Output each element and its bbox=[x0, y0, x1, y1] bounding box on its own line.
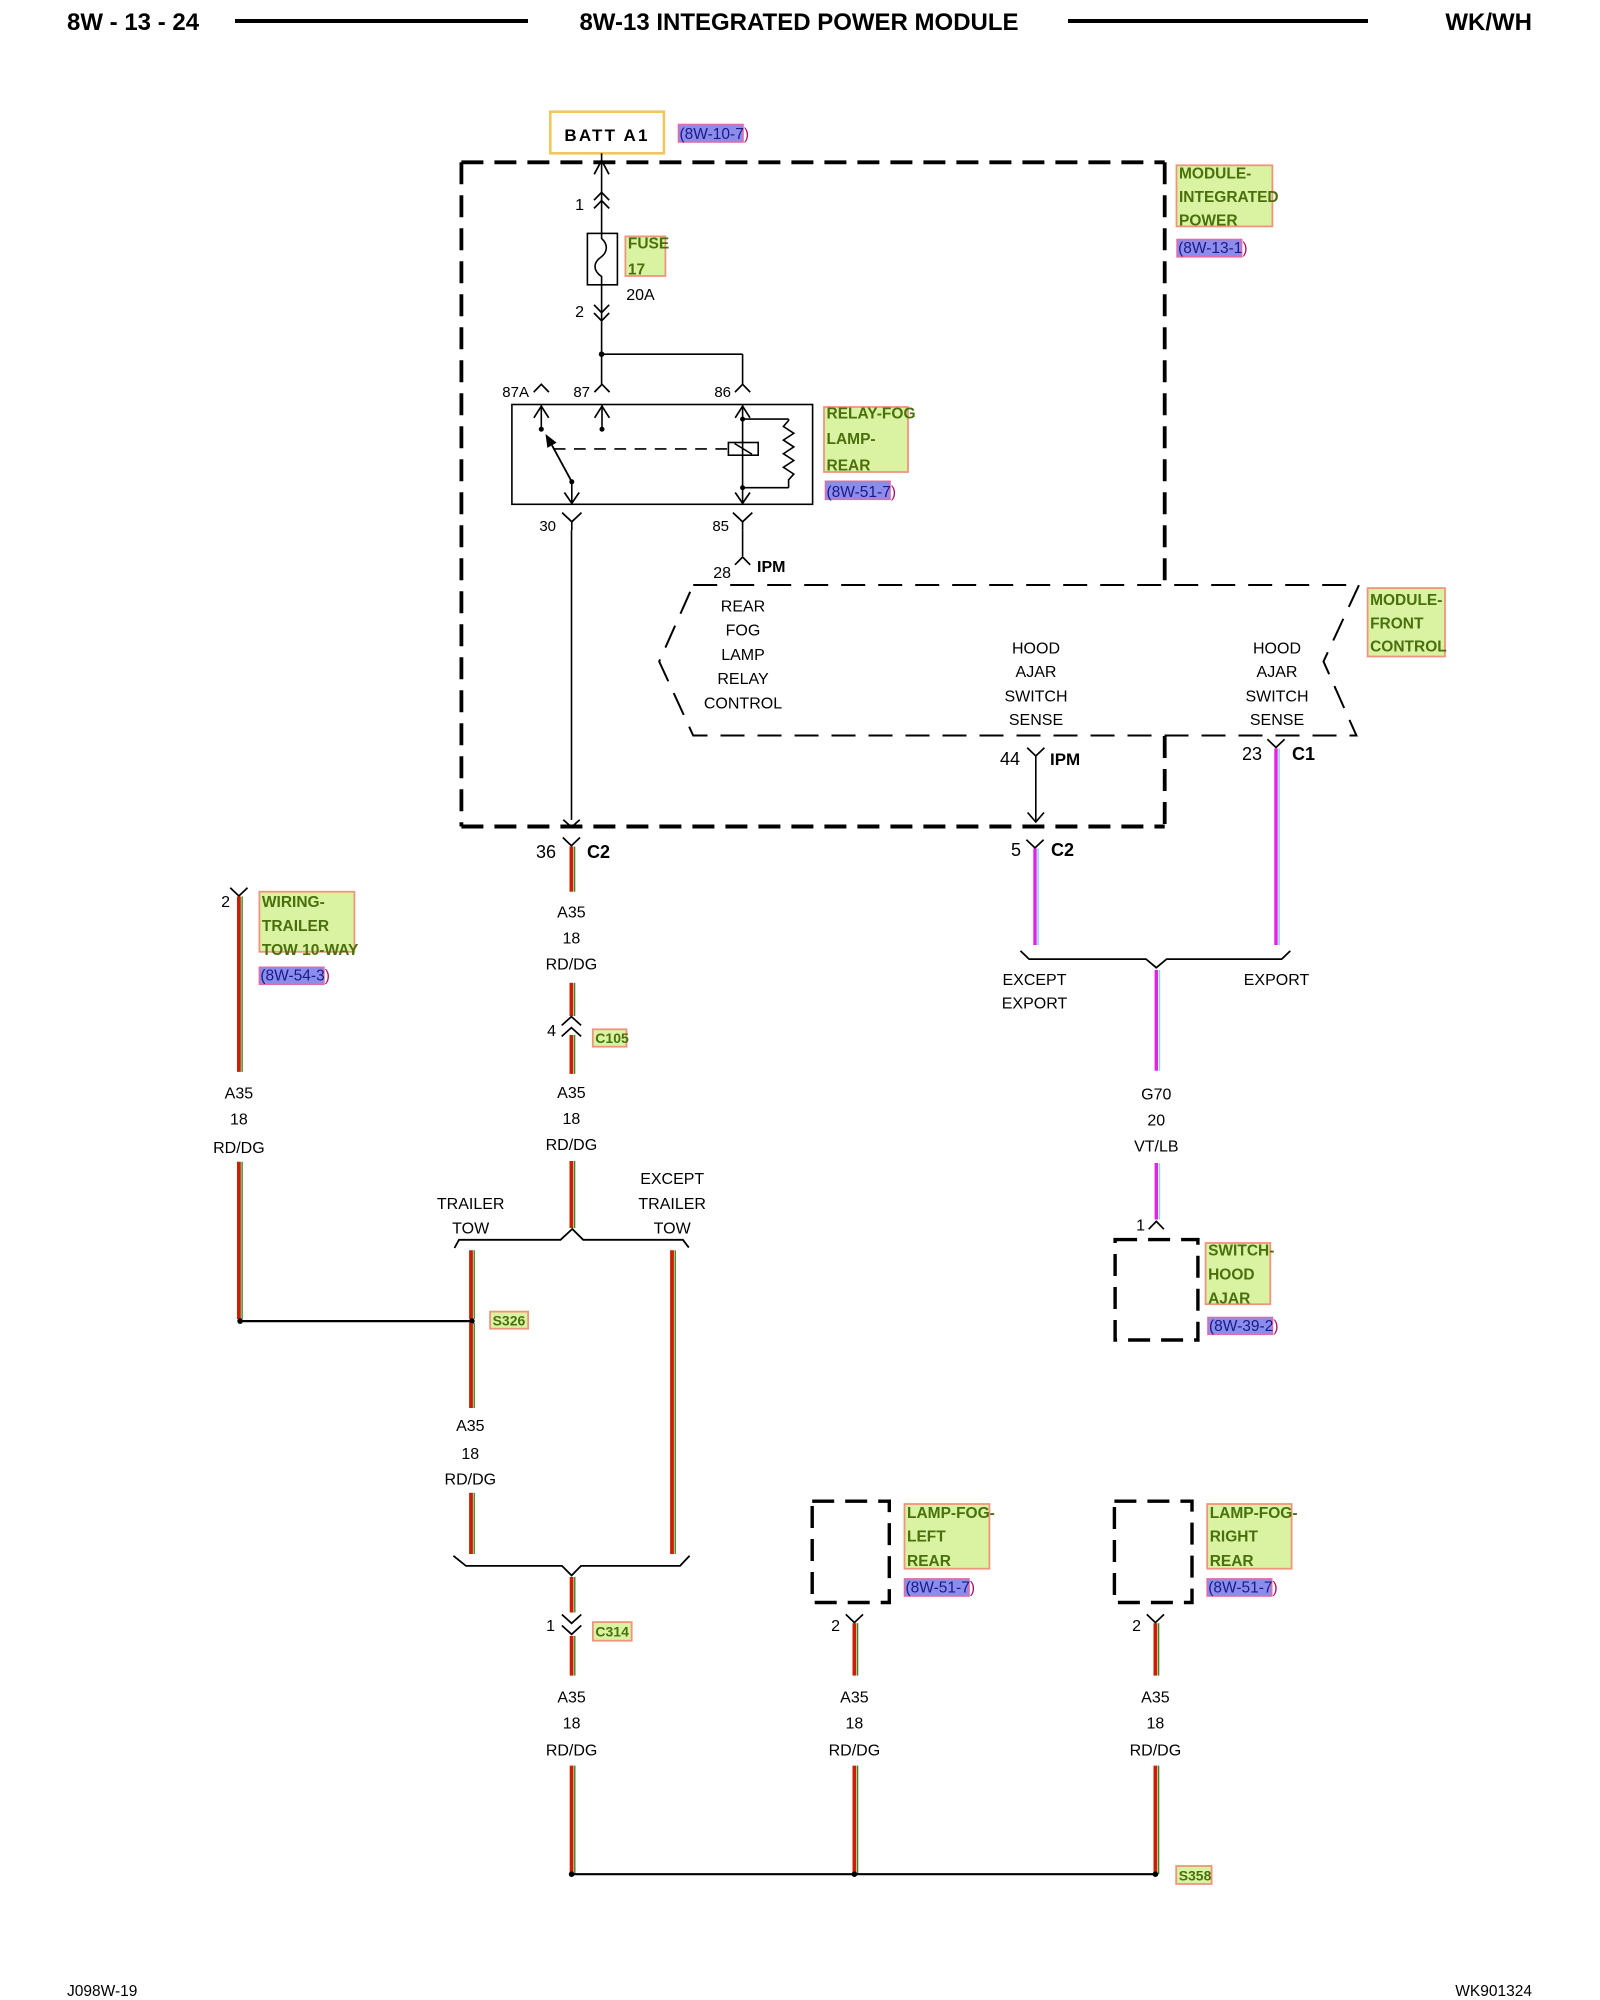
junction node bbox=[599, 351, 605, 357]
splice S358 bbox=[572, 1873, 1156, 1875]
relay pin 87A internal bbox=[540, 405, 542, 430]
svg-text:EXPORT: EXPORT bbox=[1244, 972, 1310, 989]
svg-text:18: 18 bbox=[1147, 1716, 1165, 1733]
svg-text:C2: C2 bbox=[1051, 840, 1074, 860]
svg-text:CONTROL: CONTROL bbox=[704, 696, 782, 713]
svg-text:SWITCH: SWITCH bbox=[1245, 688, 1308, 705]
label (8W-51-7) relay bbox=[826, 481, 891, 499]
svg-text:2: 2 bbox=[575, 304, 584, 321]
svg-text:LAMP-: LAMP- bbox=[827, 431, 876, 448]
wire fuse to junction bbox=[601, 285, 603, 354]
wire A35 except trailer tow branch bbox=[670, 1250, 674, 1554]
svg-text:23: 23 bbox=[1242, 744, 1262, 764]
svg-text:SWITCH-: SWITCH- bbox=[1208, 1243, 1274, 1260]
svg-text:2: 2 bbox=[831, 1618, 840, 1635]
svg-text:LAMP-FOG-: LAMP-FOG- bbox=[907, 1505, 995, 1522]
svg-text:28: 28 bbox=[713, 565, 731, 582]
lamp fog left rear dashed box bbox=[812, 1501, 889, 1602]
label (8W-51-7) left lamp bbox=[905, 1579, 970, 1596]
svg-text:4: 4 bbox=[547, 1023, 556, 1040]
svg-text:AJAR: AJAR bbox=[1257, 664, 1298, 681]
svg-text:1: 1 bbox=[1136, 1218, 1145, 1235]
svg-text:G70: G70 bbox=[1141, 1087, 1171, 1104]
wire A35 trailer tow upper bbox=[237, 897, 241, 1072]
svg-text:TOW: TOW bbox=[452, 1221, 490, 1238]
wire A35 right lamp bbox=[1154, 1623, 1158, 1675]
svg-text:(8W-51-7): (8W-51-7) bbox=[906, 1579, 976, 1596]
connector pin 30 bbox=[562, 513, 581, 522]
svg-text:WK901324: WK901324 bbox=[1455, 1983, 1532, 2000]
svg-text:A35: A35 bbox=[840, 1690, 869, 1707]
wire junction to relay pin 87 bbox=[601, 354, 603, 384]
svg-text:2: 2 bbox=[1132, 1618, 1141, 1635]
svg-text:5: 5 bbox=[1011, 840, 1021, 860]
svg-text:AJAR: AJAR bbox=[1208, 1290, 1250, 1307]
label MODULE-FRONT CONTROL bbox=[1368, 588, 1445, 656]
svg-text:TOW 10-WAY: TOW 10-WAY bbox=[262, 942, 359, 959]
svg-text:REAR: REAR bbox=[907, 1553, 951, 1570]
relay solenoid box bbox=[728, 443, 758, 456]
svg-text:(8W-51-7): (8W-51-7) bbox=[1208, 1579, 1278, 1596]
svg-text:RD/DG: RD/DG bbox=[829, 1742, 881, 1759]
svg-text:1: 1 bbox=[575, 197, 584, 214]
svg-text:SENSE: SENSE bbox=[1250, 712, 1304, 729]
connector 44 IPM bbox=[1027, 748, 1044, 756]
switch hood ajar dashed box bbox=[1115, 1240, 1198, 1340]
svg-text:EXCEPT: EXCEPT bbox=[1002, 972, 1066, 989]
svg-text:WK/WH: WK/WH bbox=[1445, 9, 1532, 36]
wire relay 30 down to connector C2 bbox=[571, 530, 573, 820]
svg-text:IPM: IPM bbox=[1050, 750, 1080, 769]
relay pin 87 internal bbox=[601, 405, 603, 430]
svg-text:(8W-51-7): (8W-51-7) bbox=[827, 484, 897, 501]
svg-text:(8W-54-3): (8W-54-3) bbox=[260, 968, 330, 985]
svg-text:FRONT: FRONT bbox=[1370, 616, 1424, 633]
svg-text:A35: A35 bbox=[557, 1690, 586, 1707]
label RELAY-FOG LAMP-REAR bbox=[824, 407, 908, 472]
label SWITCH-HOOD AJAR bbox=[1206, 1243, 1271, 1304]
svg-text:(8W-10-7): (8W-10-7) bbox=[680, 126, 750, 143]
relay common leg to pin 30 bbox=[571, 482, 573, 505]
connector 28 IPM bbox=[735, 557, 750, 565]
brace merge to C314 bbox=[453, 1556, 689, 1576]
wire battery feed to fuse bbox=[601, 153, 603, 233]
svg-text:RELAY: RELAY bbox=[717, 671, 769, 688]
connector 2 left lamp bbox=[846, 1614, 863, 1622]
relay R1 fog lamp rear box bbox=[512, 405, 813, 505]
wire G70 export branch bbox=[1274, 749, 1277, 946]
svg-text:REAR: REAR bbox=[827, 457, 871, 474]
svg-text:85: 85 bbox=[712, 518, 729, 535]
brace export variants bbox=[1021, 951, 1291, 968]
svg-text:LAMP: LAMP bbox=[721, 647, 765, 664]
wire A35 below S326 bbox=[469, 1323, 473, 1408]
splice S326 bbox=[237, 1318, 243, 1324]
svg-text:20: 20 bbox=[1147, 1113, 1165, 1130]
wire relay 85 to IPM internal 28 bbox=[742, 530, 744, 556]
svg-text:18: 18 bbox=[461, 1446, 479, 1463]
svg-text:S358: S358 bbox=[1179, 1868, 1212, 1884]
label MODULE-INTEGRATED POWER bbox=[1177, 165, 1273, 226]
svg-text:8W-13 INTEGRATED POWER MODULE: 8W-13 INTEGRATED POWER MODULE bbox=[579, 9, 1018, 36]
label WIRING-TRAILER TOW 10-WAY bbox=[259, 892, 354, 952]
svg-text:TRAILER: TRAILER bbox=[437, 1196, 505, 1213]
svg-text:(8W-39-2): (8W-39-2) bbox=[1209, 1318, 1279, 1335]
svg-text:(8W-13-1): (8W-13-1) bbox=[1178, 240, 1248, 257]
svg-text:EXCEPT: EXCEPT bbox=[640, 1171, 704, 1188]
relay coil bbox=[740, 417, 745, 422]
wire G70 except-export branch bbox=[1033, 849, 1036, 946]
header right rule bbox=[1068, 19, 1368, 23]
svg-text:RELAY-FOG: RELAY-FOG bbox=[827, 406, 916, 423]
svg-text:CONTROL: CONTROL bbox=[1370, 639, 1447, 656]
connector 23 C1 bbox=[1267, 739, 1284, 747]
label FUSE 17 bbox=[625, 236, 665, 276]
svg-text:A35: A35 bbox=[1141, 1690, 1170, 1707]
label (8W-10-7) bbox=[679, 125, 744, 143]
svg-text:TRAILER: TRAILER bbox=[262, 918, 329, 935]
svg-text:HOOD: HOOD bbox=[1253, 640, 1301, 657]
svg-text:TOW: TOW bbox=[654, 1221, 692, 1238]
svg-text:A35: A35 bbox=[557, 1085, 586, 1102]
header left rule bbox=[235, 19, 528, 23]
svg-text:86: 86 bbox=[714, 384, 731, 401]
in-line connector pin 2 bbox=[594, 305, 609, 313]
arrow into IPM at border bbox=[594, 160, 609, 174]
svg-text:POWER: POWER bbox=[1179, 212, 1238, 229]
connector 5 C2 bbox=[1026, 840, 1043, 848]
svg-text:8W - 13 - 24: 8W - 13 - 24 bbox=[67, 9, 200, 36]
svg-text:LAMP-FOG-: LAMP-FOG- bbox=[1210, 1505, 1298, 1522]
svg-text:VT/LB: VT/LB bbox=[1134, 1138, 1178, 1155]
svg-text:87A: 87A bbox=[502, 384, 529, 401]
connector 2 trailer tow wiring bbox=[230, 888, 247, 896]
svg-text:C314: C314 bbox=[595, 1624, 629, 1640]
connector pin 85 bbox=[733, 513, 752, 522]
svg-text:RD/DG: RD/DG bbox=[546, 1742, 598, 1759]
module IPM dashed outline bbox=[461, 160, 1164, 164]
connector 2 right lamp bbox=[1147, 1614, 1164, 1622]
wire A35 to C314 bbox=[570, 1577, 574, 1613]
svg-text:C105: C105 bbox=[595, 1030, 629, 1046]
svg-text:18: 18 bbox=[846, 1716, 864, 1733]
connector pin 86 bbox=[735, 384, 750, 392]
label (8W-39-2) bbox=[1208, 1318, 1273, 1335]
svg-text:18: 18 bbox=[563, 930, 581, 947]
svg-text:2: 2 bbox=[221, 894, 230, 911]
svg-text:87: 87 bbox=[573, 384, 590, 401]
svg-text:HOOD: HOOD bbox=[1208, 1267, 1255, 1284]
svg-text:C1: C1 bbox=[1292, 744, 1315, 764]
svg-text:IPM: IPM bbox=[757, 559, 785, 576]
wire A35 trailer tow branch bbox=[469, 1250, 473, 1319]
svg-text:30: 30 bbox=[539, 518, 556, 535]
wire A35 from C314 bbox=[570, 1636, 574, 1676]
svg-text:BATT A1: BATT A1 bbox=[564, 126, 649, 145]
svg-text:20A: 20A bbox=[626, 287, 655, 304]
relay switch blade bbox=[552, 445, 572, 482]
svg-text:RD/DG: RD/DG bbox=[546, 956, 598, 973]
svg-text:LEFT: LEFT bbox=[907, 1529, 946, 1546]
svg-text:36: 36 bbox=[536, 842, 556, 862]
svg-text:SWITCH: SWITCH bbox=[1004, 688, 1067, 705]
label (8W-13-1) bbox=[1177, 240, 1242, 257]
svg-text:TRAILER: TRAILER bbox=[638, 1196, 706, 1213]
svg-text:FOG: FOG bbox=[726, 623, 761, 640]
svg-text:J098W-19: J098W-19 bbox=[67, 1983, 137, 2000]
svg-text:EXPORT: EXPORT bbox=[1002, 996, 1068, 1013]
svg-text:17: 17 bbox=[628, 261, 645, 278]
connector 1 hood ajar switch bbox=[1149, 1221, 1164, 1229]
in-line connector 4 C105 bbox=[562, 1017, 581, 1026]
svg-text:SENSE: SENSE bbox=[1009, 712, 1063, 729]
svg-text:RD/DG: RD/DG bbox=[213, 1140, 265, 1157]
wire junction to relay pin 86 bbox=[602, 353, 743, 355]
wire A35 from C2 bbox=[570, 847, 574, 892]
relay pin 86 leg to pin 85 bbox=[742, 419, 744, 504]
svg-text:HOOD: HOOD bbox=[1012, 640, 1060, 657]
in-line connector pin 1 bbox=[594, 192, 609, 200]
svg-text:REAR: REAR bbox=[721, 598, 765, 615]
svg-text:1: 1 bbox=[546, 1618, 555, 1635]
label LAMP-FOG-LEFT REAR bbox=[905, 1504, 990, 1569]
wire G70 to hood ajar switch bbox=[1155, 970, 1158, 1071]
lamp fog right rear dashed box bbox=[1114, 1501, 1192, 1602]
svg-text:A35: A35 bbox=[456, 1418, 485, 1435]
svg-text:44: 44 bbox=[1000, 749, 1020, 769]
svg-text:FUSE: FUSE bbox=[628, 236, 669, 253]
wire hood ajar switch sense to C2 bbox=[1035, 756, 1037, 821]
svg-text:A35: A35 bbox=[557, 904, 586, 921]
label LAMP-FOG-RIGHT REAR bbox=[1207, 1504, 1291, 1569]
svg-text:A35: A35 bbox=[225, 1086, 254, 1103]
svg-text:S326: S326 bbox=[493, 1313, 526, 1329]
svg-text:C2: C2 bbox=[587, 842, 610, 862]
svg-text:INTEGRATED: INTEGRATED bbox=[1179, 189, 1279, 206]
label (8W-54-3) bbox=[259, 967, 324, 984]
battery feed box BATT A1 bbox=[550, 112, 664, 154]
svg-text:RD/DG: RD/DG bbox=[546, 1137, 598, 1154]
wire A35 from C105 bbox=[570, 1035, 574, 1074]
svg-text:18: 18 bbox=[230, 1112, 248, 1129]
brace trailer tow split bbox=[455, 1229, 689, 1248]
connector pin 87 bbox=[594, 384, 609, 392]
connector 36 C2 bbox=[563, 838, 580, 846]
relay actuator dashed link bbox=[554, 448, 729, 450]
svg-text:RIGHT: RIGHT bbox=[1210, 1529, 1259, 1546]
svg-text:WIRING-: WIRING- bbox=[262, 894, 325, 911]
fuse F17 bbox=[587, 233, 617, 284]
module front control dashed band bbox=[659, 585, 1359, 736]
svg-text:REAR: REAR bbox=[1210, 1553, 1254, 1570]
wire A35 left lamp bbox=[853, 1623, 857, 1675]
svg-text:RD/DG: RD/DG bbox=[445, 1471, 497, 1488]
svg-text:MODULE-: MODULE- bbox=[1179, 165, 1251, 182]
svg-text:AJAR: AJAR bbox=[1016, 664, 1057, 681]
svg-text:MODULE-: MODULE- bbox=[1370, 592, 1442, 609]
svg-text:18: 18 bbox=[563, 1111, 581, 1128]
connector pin 87A bbox=[534, 384, 549, 392]
label (8W-51-7) right lamp bbox=[1207, 1579, 1272, 1596]
svg-text:RD/DG: RD/DG bbox=[1130, 1742, 1182, 1759]
in-line connector 1 C314 bbox=[562, 1615, 581, 1624]
svg-text:18: 18 bbox=[563, 1716, 581, 1733]
